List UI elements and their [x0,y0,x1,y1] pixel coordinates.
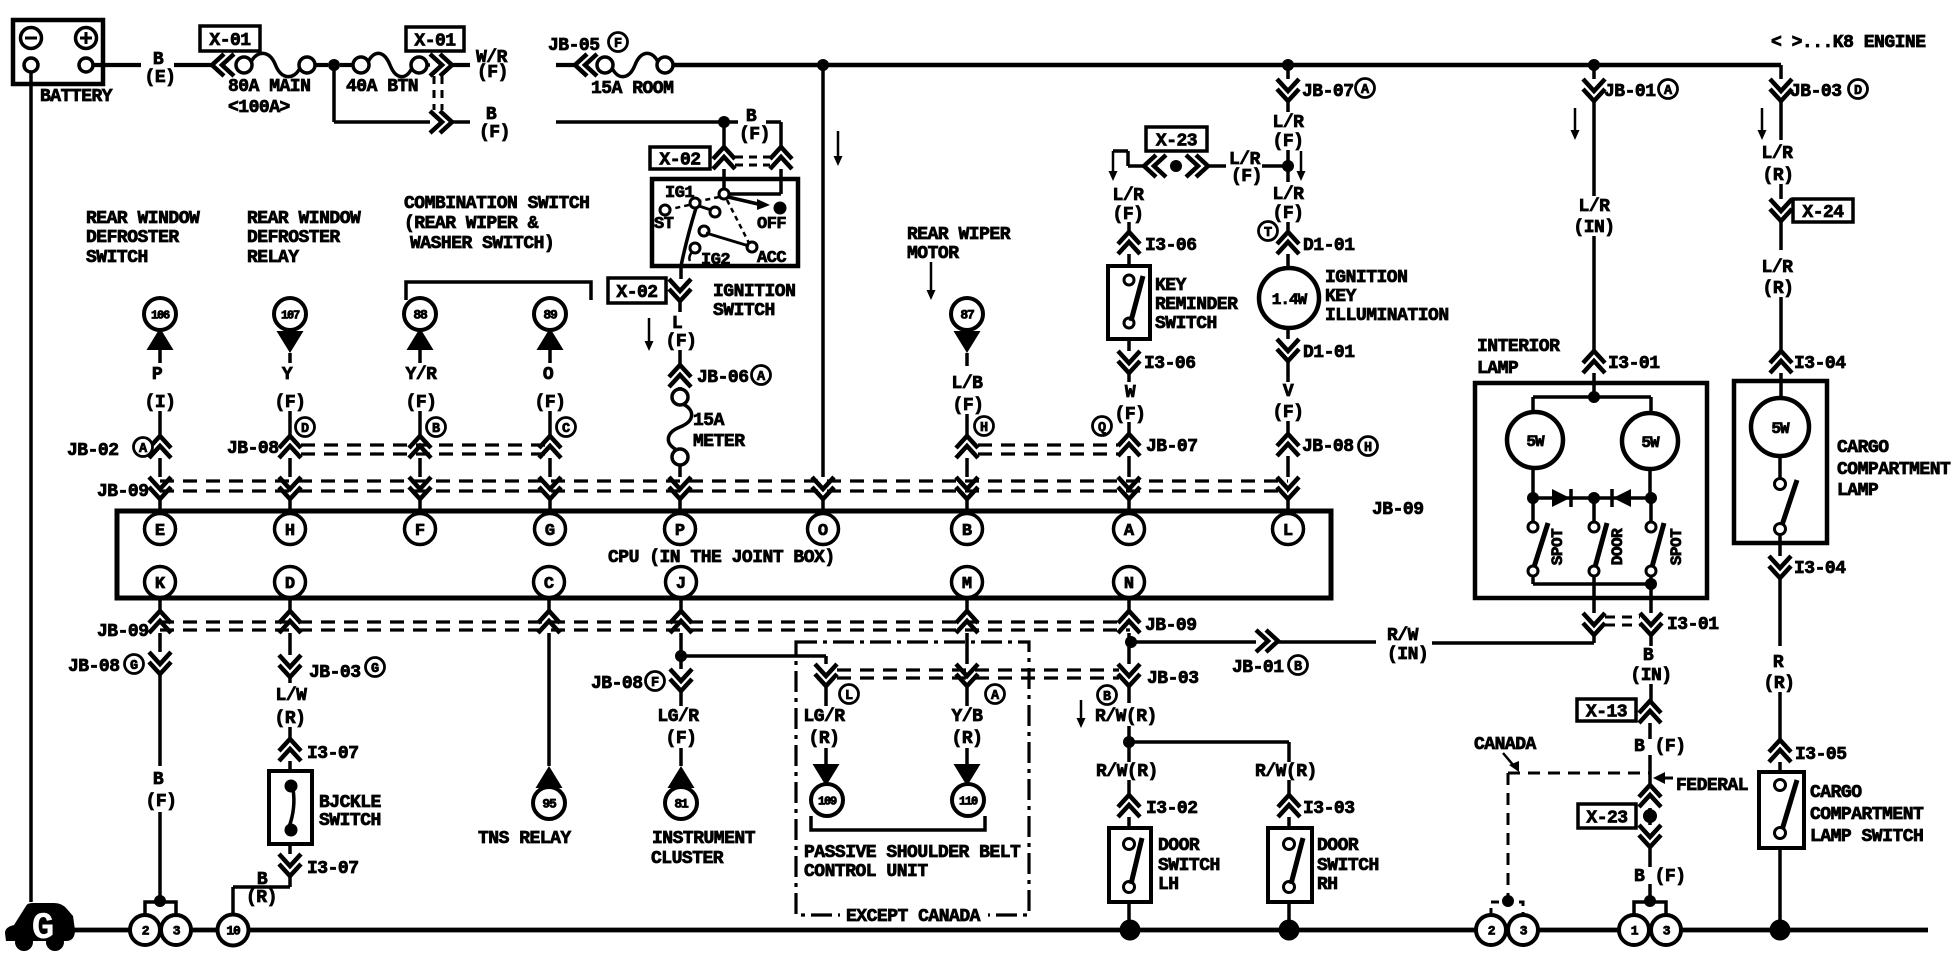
svg-text:I3-01: I3-01 [1667,615,1719,635]
svg-text:JB-03: JB-03 [1790,82,1842,102]
svg-text:EXCEPT CANADA: EXCEPT CANADA [846,907,981,927]
svg-text:REAR WINDOW: REAR WINDOW [247,209,361,229]
svg-text:L/R: L/R [1579,197,1611,217]
svg-text:SWITCH: SWITCH [86,248,148,268]
svg-text:15A ROOM: 15A ROOM [591,79,673,99]
svg-text:(F): (F) [477,63,508,83]
svg-text:<100A>: <100A> [228,98,290,118]
connector JB-02 A [149,436,171,458]
svg-text:I3-04: I3-04 [1794,559,1846,579]
wire to ground rail [1778,848,1782,930]
connector JB-01 B [1256,630,1278,652]
door switch LH S4 [1109,828,1151,902]
svg-text:K: K [155,575,166,594]
connector JB-07 Q [1093,417,1112,436]
svg-text:D1-01: D1-01 [1303,236,1355,256]
svg-text:95: 95 [542,797,557,812]
ignition switch contacts [729,192,781,196]
svg-text:15A: 15A [693,411,725,431]
connector JB-09 chevron [669,477,691,499]
wire O column [821,65,825,477]
wire branch B (F) below 40A [332,65,336,122]
CPU pin E [145,514,176,545]
svg-text:I3-07: I3-07 [307,744,359,764]
CPU pin P [665,514,696,545]
connector I3-03 [1287,780,1291,795]
svg-text:107: 107 [281,309,300,323]
connector X-02 (upper) [722,122,726,147]
connector 3 [161,915,191,945]
connector JB-06 A [669,365,691,387]
svg-text:REAR WIPER: REAR WIPER [907,225,1011,245]
svg-text:LAMP: LAMP [1477,359,1519,379]
svg-text:5W: 5W [1641,434,1660,452]
svg-text:IGNITION: IGNITION [1325,268,1407,288]
annotation arrow [930,262,933,292]
svg-text:BJCKLE: BJCKLE [319,793,382,813]
wire to ground connectors 2 3 [158,812,162,901]
svg-text:F: F [614,37,622,52]
svg-text:(R): (R) [1763,279,1794,299]
svg-text:(F): (F) [1273,132,1304,152]
svg-text:L/R: L/R [1762,258,1794,278]
svg-text:KEY: KEY [1155,276,1187,296]
annotation arrow [1574,108,1577,132]
connector JB-09 chevron lower [679,598,683,613]
svg-text:JB-06: JB-06 [697,368,749,388]
svg-text:A: A [1664,84,1673,99]
svg-text:RELAY: RELAY [247,248,299,268]
connector 109 [824,748,828,764]
CPU pin L [1273,514,1304,545]
wire battery positive to fuse block [93,63,141,67]
node main rail to JB-07 A [1282,59,1294,71]
svg-text:I3-05: I3-05 [1795,745,1847,765]
svg-text:WASHER SWITCH): WASHER SWITCH) [410,234,554,254]
wire battery to ground [29,72,33,902]
svg-text:P: P [152,365,163,385]
node B(F) above ignition switch [718,116,730,128]
lamp bulb 5W right [1622,413,1678,469]
svg-text:Q: Q [1098,421,1106,436]
svg-text:CONTROL UNIT: CONTROL UNIT [804,862,928,882]
svg-text:A: A [1361,83,1370,98]
svg-text:(REAR WIPER &: (REAR WIPER & [404,214,539,234]
svg-text:B: B [486,105,497,125]
lamp ignition key illumination 1.4W [1259,268,1319,328]
svg-text:X-01: X-01 [209,31,251,51]
connector 2 canada [1476,915,1506,945]
svg-text:METER: METER [693,432,745,452]
node lamp feed split [1588,391,1600,403]
connector I3-07 lower [288,844,292,854]
svg-text:X-02: X-02 [659,151,700,171]
svg-text:D1-01: D1-01 [1303,343,1355,363]
svg-text:F: F [651,676,659,691]
svg-text:JB-07: JB-07 [1146,437,1198,457]
svg-text:CLUSTER: CLUSTER [651,849,724,869]
svg-text:ACC: ACC [757,249,786,268]
svg-text:C: C [544,575,554,594]
annotation arrow [837,131,840,158]
svg-text:C: C [562,422,570,437]
wire jog to key reminder branch [1128,164,1144,168]
svg-text:B (F): B (F) [1634,867,1686,887]
connector JB-09 chevron lower [158,598,162,613]
svg-text:80A MAIN: 80A MAIN [228,77,310,97]
svg-text:D: D [285,575,295,594]
svg-text:B (F): B (F) [1634,737,1686,757]
svg-text:J: J [676,575,686,594]
CPU pin A [1114,514,1145,545]
wire branch J to belt unit [681,654,826,658]
svg-text:JB-09: JB-09 [1145,616,1197,636]
svg-text:I3-02: I3-02 [1146,799,1198,819]
connector X-02 (lower) [679,266,683,279]
svg-text:(R): (R) [246,888,277,908]
svg-text:JB-02: JB-02 [67,441,119,461]
fuse 40A BTN [340,63,353,67]
connector JB-08 F [670,669,692,691]
svg-text:(IN): (IN) [1630,666,1671,686]
connector JB-08 C [539,436,561,458]
wire: main feed rail [673,63,1781,68]
svg-text:SWITCH: SWITCH [1317,856,1379,876]
svg-text:H: H [980,421,988,436]
svg-text:(F): (F) [953,396,984,416]
svg-text:110: 110 [959,795,978,809]
connector JB-03 A [965,633,969,664]
svg-text:(F): (F) [535,393,566,413]
svg-text:JB-05: JB-05 [548,36,600,56]
bus JB-07 dashed [978,443,1118,446]
svg-text:OFF: OFF [757,215,786,234]
svg-text:TNS RELAY: TNS RELAY [478,829,571,849]
node J branch [679,633,683,669]
svg-text:R/W(R): R/W(R) [1096,762,1158,782]
svg-text:(E): (E) [145,68,176,88]
connector 88 combination switch [404,298,436,330]
svg-text:SPOT: SPOT [1549,528,1567,565]
CPU pin D [275,567,306,598]
CPU pin H [275,514,306,545]
connector JB-09 chevron [812,477,834,499]
svg-text:R/W: R/W [1387,626,1419,646]
svg-text:P: P [675,522,685,541]
svg-text:X-01: X-01 [414,32,456,52]
bus JB-08 dashed [301,443,550,446]
annotation arrow [1300,151,1303,173]
CPU pin C [534,567,565,598]
svg-text:I3-04: I3-04 [1794,354,1846,374]
connector JB-09 chevron lower [547,598,551,613]
svg-text:X-23: X-23 [1156,132,1197,152]
connector JB-03 B [1118,664,1140,686]
svg-text:I3-06: I3-06 [1144,354,1196,374]
svg-text:B: B [962,522,972,541]
svg-text:IGNITION: IGNITION [713,282,795,302]
svg-text:JB-09: JB-09 [97,482,149,502]
ignition switch S1 box [722,169,726,190]
wire to TNS relay [547,633,551,766]
wire bulbs to diode bar [1531,468,1535,498]
interior lamp box [1475,383,1707,598]
svg-text:L: L [672,314,682,334]
svg-text:I3-06: I3-06 [1145,236,1197,256]
svg-text:(F): (F) [739,125,770,145]
svg-text:LAMP: LAMP [1837,481,1879,501]
svg-text:B: B [153,770,164,790]
wire L (F) [678,301,682,312]
key reminder switch S2 [1108,266,1150,339]
svg-text:X-02: X-02 [616,283,657,303]
connector X-23 (lower) [1639,785,1661,807]
svg-text:G: G [32,907,55,950]
svg-text:81: 81 [674,797,689,812]
svg-text:INSTRUMENT: INSTRUMENT [652,829,756,849]
svg-text:(IN): (IN) [1387,645,1428,665]
connector JB-09 chevron lower [288,598,292,613]
svg-text:(F): (F) [666,729,697,749]
connector 87 rear wiper motor [951,298,983,330]
svg-text:N: N [1124,575,1134,594]
connector X-01 (right) [427,63,430,67]
annotation arrow [1080,700,1083,720]
wire to connectors 1 3 [1648,884,1652,901]
connector JB-09 chevron lower [965,598,969,613]
svg-text:M: M [962,575,972,594]
connector 1 [1619,915,1649,945]
svg-text:F: F [415,522,425,541]
connector I3-01 lower pair [1583,613,1605,635]
svg-text:G: G [371,662,379,677]
svg-text:(F): (F) [1231,167,1262,187]
bracket over combination switch pins [406,282,591,300]
bus JB-09 lower dashed [160,620,1130,623]
svg-text:B: B [1643,646,1654,666]
connector 107 rear window defroster relay [274,298,306,330]
svg-text:KEY: KEY [1325,287,1357,307]
svg-text:ST: ST [654,215,674,234]
svg-text:COMBINATION SWITCH: COMBINATION SWITCH [404,194,589,214]
connector I3-06 (lower) [1127,339,1131,351]
wire to RH door switch [1129,740,1289,744]
diode D2 [1613,489,1631,507]
connector 89 combination switch [534,298,566,330]
lamp bulb 5W cargo [1751,398,1809,456]
CPU pin K [145,567,176,598]
svg-text:B: B [1294,660,1302,675]
svg-text:B: B [1103,690,1111,705]
svg-text:L/R: L/R [1273,185,1305,205]
svg-text:JB-01: JB-01 [1232,658,1284,678]
svg-text:G: G [545,522,555,541]
svg-text:REAR WINDOW: REAR WINDOW [86,209,200,229]
ground rail [60,928,1928,933]
svg-text:(R): (R) [809,729,840,749]
node X-23 join [1282,160,1294,172]
connector D1-01 T upper [1259,222,1278,241]
fuse 15A METER [678,387,682,390]
svg-text:O: O [818,522,828,541]
svg-text:MOTOR: MOTOR [907,244,959,264]
svg-text:SPOT: SPOT [1668,528,1686,565]
svg-text:R/W(R): R/W(R) [1095,707,1157,727]
svg-text:INTERIOR: INTERIOR [1477,337,1560,357]
svg-text:JB-03: JB-03 [1147,669,1199,689]
svg-text:DEFROSTER: DEFROSTER [247,228,340,248]
svg-text:L/R: L/R [1273,113,1305,133]
svg-text:(R): (R) [952,729,983,749]
node door switch branch [1127,726,1131,742]
svg-text:LG/R: LG/R [657,707,699,727]
svg-text:(R): (R) [1763,166,1794,186]
wire to X-23 [1648,755,1652,785]
svg-text:JB-07: JB-07 [1302,82,1354,102]
diode D1 [1552,489,1570,507]
connector I3-05 [1778,692,1782,740]
svg-text:B: B [432,422,440,437]
connector X-01 (left) [212,54,234,76]
connector JB-09 chevron [539,477,561,499]
svg-text:SWITCH: SWITCH [1158,856,1220,876]
bus JB-09 upper dashed [160,479,1288,482]
svg-text:REMINDER: REMINDER [1155,295,1238,315]
svg-text:H: H [1364,441,1372,456]
svg-text:< >...K8 ENGINE: < >...K8 ENGINE [1771,33,1926,53]
node main rail to JB-01 A [1588,59,1600,71]
fuse 80A MAIN <100A> [236,57,252,73]
wire switch outputs [1531,576,1535,584]
CPU pin G [535,514,566,545]
wire B (IN) [1649,635,1653,646]
svg-text:JB-03: JB-03 [309,663,361,683]
CPU pin J [666,567,697,598]
connector X-13 [1649,684,1653,701]
svg-text:G: G [130,659,138,674]
svg-text:40A BTN: 40A BTN [346,77,418,97]
svg-text:L/B: L/B [952,374,984,394]
connector JB-09 chevron lower [1127,598,1131,613]
bus JB-03 dashed [837,668,1119,671]
svg-text:JB-09: JB-09 [1372,500,1424,520]
svg-text:SWITCH: SWITCH [713,301,775,321]
svg-text:DOOR: DOOR [1158,836,1200,856]
connector I3-04 upper [1779,297,1783,351]
svg-text:X-23: X-23 [1586,809,1627,829]
svg-text:(R): (R) [275,709,306,729]
svg-text:L/W: L/W [276,686,308,706]
connector I3-07 upper [288,727,292,739]
wire to interior lamp [1592,236,1596,351]
annotation arrow [1761,108,1764,132]
svg-text:SWITCH: SWITCH [1155,314,1217,334]
connector JB-09 chevron [1118,477,1140,499]
svg-text:CANADA: CANADA [1474,735,1537,755]
node main rail to O column [817,59,829,71]
svg-text:ILLUMINATION: ILLUMINATION [1325,306,1449,326]
svg-text:L: L [845,689,853,704]
svg-text:SWITCH: SWITCH [319,811,381,831]
wire CANADA dashed [1508,772,1650,775]
svg-text:A: A [757,370,766,385]
svg-text:CARGO: CARGO [1837,438,1889,458]
svg-text:DEFROSTER: DEFROSTER [86,228,179,248]
svg-text:FEDERAL: FEDERAL [1676,776,1748,796]
svg-text:H: H [285,522,295,541]
ground symbol G [5,903,75,941]
svg-text:B: B [746,107,757,127]
svg-text:CPU (IN THE JOINT BOX): CPU (IN THE JOINT BOX) [608,548,835,568]
svg-text:I3-07: I3-07 [307,859,359,879]
svg-text:(I): (I) [145,393,176,413]
svg-text:L/R: L/R [1762,144,1794,164]
switch DOOR middle [1589,522,1599,532]
svg-text:JB-08: JB-08 [68,657,120,677]
wire W/R (F) [452,63,470,67]
connector JB-03 D [1779,65,1783,79]
connector 95 TNS relay [536,766,563,788]
node N to R/W branch [1127,633,1131,664]
connector I3-02 [1127,780,1131,795]
CPU pin B [952,514,983,545]
connector JB-09 chevron [149,477,171,499]
connector JB-05 F and fuse 15A ROOM [575,54,597,76]
svg-text:R/W(R): R/W(R) [1255,762,1317,782]
connector JB-07 H [956,436,978,458]
battery B1 [13,20,103,84]
svg-text:B: B [153,50,164,70]
svg-text:V: V [1283,382,1294,402]
ignition OFF position [728,197,758,204]
label EXCEPT CANADA [840,907,988,924]
connector 3 right [1651,915,1681,945]
door switch RH S5 [1268,828,1312,902]
passive shoulder belt control unit box [796,642,1029,915]
svg-text:DOOR: DOOR [1609,528,1627,565]
CPU pin M [952,567,983,598]
connector D1-01 lower [1286,328,1290,339]
switch SPOT right [1646,522,1656,532]
svg-text:(F): (F) [479,123,510,143]
connector 81 instrument cluster [679,748,683,766]
svg-text:Y/R: Y/R [406,365,438,385]
wire B (R) to connector 10 [288,876,292,887]
svg-text:T: T [1264,226,1272,241]
svg-text:LH: LH [1158,875,1179,895]
buckle switch S3 [269,771,312,844]
wire to connector X-01 [174,63,212,67]
cargo lamp switch contact [1778,456,1782,479]
connector 110 [965,748,969,764]
svg-text:D: D [1854,84,1862,99]
svg-text:(F): (F) [1273,204,1304,224]
svg-text:B: B [257,870,268,890]
connector JB-09 chevron [279,477,301,499]
svg-text:Y/B: Y/B [952,707,984,727]
svg-text:(F): (F) [146,792,177,812]
svg-text:5W: 5W [1771,420,1790,438]
svg-text:A: A [1124,522,1135,541]
svg-text:JB-01: JB-01 [1604,82,1656,102]
svg-text:10: 10 [226,924,241,939]
svg-text:R: R [1773,653,1784,673]
CPU pin N [1114,567,1145,598]
connector JB-08 B [409,436,431,458]
connector JB-01 A [1592,65,1596,79]
svg-text:BATTERY: BATTERY [40,87,113,107]
wire to ground rail [1287,902,1291,930]
